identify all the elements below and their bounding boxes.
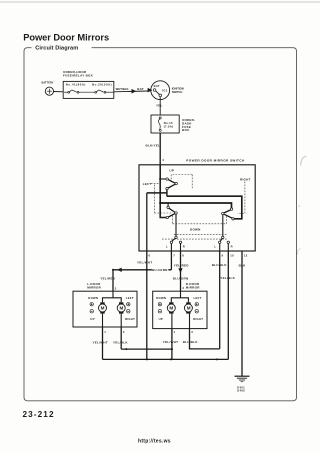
svg-text:G402: G402	[237, 389, 245, 393]
svg-text:LEFT: LEFT	[126, 296, 134, 300]
svg-text:12: 12	[244, 254, 248, 258]
svg-text:LEFT: LEFT	[194, 296, 202, 300]
DOWN position label	[190, 227, 201, 231]
left mirror label UP	[90, 317, 94, 321]
svg-text:IGNITION: IGNITION	[172, 86, 184, 90]
svg-text:UP: UP	[159, 317, 163, 321]
LEFT position label	[143, 182, 152, 186]
wire left mirror YEL/WHT to bus1	[102, 327, 104, 359]
left door mirror name label	[87, 282, 101, 289]
section title Circuit Diagram	[35, 46, 78, 52]
node junction H2 branch	[159, 202, 161, 204]
svg-text:BAT: BAT	[154, 84, 160, 88]
ignition switch name label	[172, 86, 184, 93]
right mirror polarity marks right column	[195, 303, 198, 313]
left mirror polarity marks left column	[90, 303, 93, 313]
right mirror label LEFT	[194, 296, 202, 300]
right mirror feed split	[171, 291, 188, 302]
bus2 YEL/BLK cross-connect	[121, 348, 172, 350]
wire right mirror YEL/WHT to bus1	[171, 329, 173, 360]
svg-text:Circuit Diagram: Circuit Diagram	[35, 46, 78, 52]
svg-text:No.20(50A): No.20(50A)	[92, 83, 112, 87]
fuse No.15 (7.5A) value label	[164, 121, 173, 128]
motor M left mirror left/right	[117, 302, 125, 313]
UP position label	[169, 168, 174, 172]
svg-text:RIGHT: RIGHT	[240, 178, 251, 182]
main feed wire inside switch	[160, 165, 166, 218]
svg-text:IG1: IG1	[162, 88, 167, 92]
svg-text:DOWN: DOWN	[88, 296, 98, 300]
wire under-dash fuse box to mirror switch, BLK/YEL	[146, 133, 161, 165]
left mirror label LEFT	[126, 296, 134, 300]
svg-text:http://tes.ws: http://tes.ws	[138, 439, 171, 445]
svg-text:DOWN: DOWN	[190, 227, 201, 231]
under-dash fuse box	[151, 115, 179, 133]
motor M right mirror left/right	[184, 302, 192, 313]
svg-text:3: 3	[123, 330, 125, 334]
wire labels YEL/WHT BLU/BLK below right mirror	[163, 340, 199, 344]
connector arrow on branch wire	[117, 268, 122, 272]
scan edge artifact top	[0, 2, 320, 3]
svg-text:UP: UP	[90, 317, 94, 321]
wire terminal 9 BLU/BLK down	[212, 251, 228, 349]
svg-text:L: L	[214, 245, 216, 249]
left selector output stem	[175, 214, 177, 236]
node junction on common wire at branch to left mirror	[146, 269, 148, 271]
terminal 2 of right mirror	[183, 286, 185, 290]
svg-text:(7.5A): (7.5A)	[164, 124, 173, 128]
node BAT label	[137, 87, 144, 91]
svg-text:WHT/BLK: WHT/BLK	[116, 87, 129, 91]
RIGHT position label	[240, 178, 251, 182]
svg-text:BLU/BLK: BLU/BLK	[183, 340, 199, 344]
right selector contacts and lever	[222, 208, 235, 220]
right pair pin labels L R	[214, 245, 232, 249]
right pair contacts L and R	[219, 241, 230, 243]
under-hood fuse/relay box	[63, 81, 114, 98]
DOWN gang dashed link	[173, 216, 227, 224]
connector arrow into ignition switch	[148, 88, 153, 93]
svg-text:YEL/WHT: YEL/WHT	[163, 340, 178, 344]
branch wire BLU/GRN to left mirror	[112, 268, 171, 291]
terminal 2 of left mirror	[115, 286, 117, 290]
svg-text:4: 4	[162, 158, 164, 162]
under-hood fuse/relay box label	[63, 70, 93, 77]
svg-text:BLU/BLK: BLU/BLK	[212, 263, 228, 267]
node junction on feed at UP branch	[159, 178, 166, 180]
left pair pin labels L R	[166, 245, 185, 249]
wire UP contact down to common H1	[166, 190, 168, 196]
svg-text:MIRROR: MIRROR	[87, 285, 101, 289]
svg-text:M: M	[169, 306, 173, 311]
svg-text:DOWN: DOWN	[156, 296, 166, 300]
right mirror polarity marks left column	[158, 303, 161, 313]
right door mirror name label	[186, 282, 200, 289]
svg-text:3: 3	[191, 330, 193, 334]
svg-text:YEL/RED: YEL/RED	[174, 263, 190, 267]
svg-text:UP: UP	[169, 168, 174, 172]
svg-text:BAT: BAT	[137, 87, 144, 91]
page title	[23, 33, 109, 43]
svg-text:No.41(80A): No.41(80A)	[66, 83, 86, 87]
scan edge artifact right	[297, 156, 306, 255]
wire battery to under-hood fuse box	[54, 91, 64, 93]
right door mirror box	[153, 291, 207, 328]
svg-text:2: 2	[183, 286, 185, 290]
wire ignition switch to under-dash fuse box, YEL	[156, 97, 163, 115]
power door mirror switch box	[139, 165, 255, 251]
ground G401 G402	[235, 376, 250, 382]
bus1 YEL/WHT common return	[103, 358, 229, 360]
svg-text:BLK/YEL: BLK/YEL	[146, 144, 161, 148]
ignition switch pin IG1	[162, 88, 167, 92]
svg-text:BLK: BLK	[239, 263, 247, 267]
motor M right mirror up/down	[167, 302, 175, 313]
svg-text:RIGHT: RIGHT	[125, 317, 135, 321]
ignition switch pin BAT	[154, 84, 160, 88]
wire branch to terminal 6 (YEL/WHT common)	[147, 192, 167, 194]
svg-text:7: 7	[173, 254, 175, 258]
wires pair contacts to box bottom	[171, 244, 228, 252]
ignition switch	[151, 81, 170, 100]
right mirror label RIGHT	[193, 317, 203, 321]
terminal 4 of mirror switch	[162, 158, 164, 162]
watermark	[138, 439, 171, 445]
svg-text:BOX: BOX	[182, 128, 189, 132]
svg-text:M: M	[101, 306, 105, 311]
ground name label G401 G402	[237, 385, 245, 392]
LEFT gang dashed link	[151, 183, 173, 213]
svg-text:YEL/WHT: YEL/WHT	[137, 261, 152, 265]
svg-text:R: R	[183, 245, 185, 249]
svg-text:1: 1	[174, 330, 176, 334]
wire terminal 10 YEL/BLK down	[220, 251, 235, 359]
UP switch contacts and lever	[166, 178, 178, 190]
svg-text:YEL/WHT: YEL/WHT	[93, 340, 108, 344]
frame border of diagram	[24, 48, 297, 401]
svg-text:YEL: YEL	[156, 103, 163, 107]
terminal numbers below right mirror	[174, 330, 194, 334]
svg-text:1: 1	[104, 330, 106, 334]
fuse No.41(80A)	[64, 90, 95, 93]
bus H2 to right assembly upper contact	[160, 203, 231, 208]
right output pivot and lever to L contact	[220, 236, 224, 241]
terminal numbers below switch box	[149, 254, 248, 258]
wire YEL/RED label into left mirror	[100, 277, 116, 281]
motor M left mirror up/down	[99, 302, 107, 313]
right selector output stem	[222, 215, 224, 237]
wire fuse box to ignition switch, WHT/BLK	[114, 87, 148, 92]
connector arrow on WHT/BLK wire	[132, 89, 137, 94]
svg-text:RIGHT: RIGHT	[193, 317, 203, 321]
terminal numbers below left mirror	[104, 330, 125, 334]
left mirror label RIGHT	[125, 317, 135, 321]
battery	[42, 81, 54, 96]
common bus H1 to right assembly	[167, 196, 242, 219]
right mirror label DOWN	[156, 296, 166, 300]
RIGHT gang dashed link	[238, 182, 245, 214]
wire terminal 7 down to branch	[170, 251, 172, 270]
wire BLU/GRN label into right mirror	[173, 276, 189, 280]
wire right mirror BLU/BLK cross-connect to terminal 9 wire	[190, 329, 220, 349]
wires left mirror motors to box bottom	[103, 314, 122, 327]
svg-text:FUSE/RELAY BOX: FUSE/RELAY BOX	[63, 74, 93, 78]
fuse No.20(50A)	[95, 90, 114, 93]
wire terminal 6 YEL/WHT common down to ground bus	[137, 193, 152, 360]
wires right mirror motors to box bottom	[172, 314, 190, 329]
wire left mirror YEL/BLK to bus2	[120, 327, 122, 349]
left mirror feed split	[103, 291, 122, 302]
right mirror label UP	[159, 317, 163, 321]
svg-text:23-212: 23-212	[23, 410, 55, 419]
fuse No.41(80A) value label	[66, 83, 86, 87]
svg-text:YEL/RED: YEL/RED	[100, 277, 116, 281]
svg-text:Power Door Mirrors: Power Door Mirrors	[23, 33, 109, 43]
svg-text:9: 9	[222, 254, 224, 258]
svg-text:10: 10	[230, 254, 234, 258]
svg-text:BLU/GRN: BLU/GRN	[152, 268, 168, 272]
under-dash fuse box name label	[182, 118, 195, 132]
wire terminal 12 BLK down to ground	[239, 251, 247, 376]
svg-text:LEFT: LEFT	[143, 182, 152, 186]
svg-text:M: M	[187, 306, 191, 311]
svg-text:BLU/GRN: BLU/GRN	[173, 276, 189, 280]
svg-text:L: L	[166, 245, 168, 249]
wire labels YEL/WHT YEL/BLK below left mirror	[93, 340, 129, 344]
left output pivot and lever to L contact	[172, 236, 177, 241]
lower gang dashed link	[162, 235, 227, 240]
page number 23-212	[23, 410, 55, 419]
left mirror polarity marks right column	[127, 303, 130, 313]
power door mirror switch name label	[186, 159, 245, 163]
svg-text:SWITCH: SWITCH	[172, 90, 183, 94]
svg-text:6: 6	[149, 254, 151, 258]
fuse No.15 (7.5A)	[158, 117, 161, 131]
svg-text:8: 8	[182, 254, 184, 258]
svg-text:R: R	[231, 245, 233, 249]
left mirror label DOWN	[88, 296, 98, 300]
svg-text:YEL/BLK: YEL/BLK	[220, 276, 235, 280]
left pair contacts L and R	[170, 241, 182, 243]
svg-text:POWER DOOR MIRROR SWITCH: POWER DOOR MIRROR SWITCH	[186, 159, 245, 163]
stub H2 to left lower contact	[167, 203, 169, 206]
svg-text:BATTERY: BATTERY	[42, 81, 54, 85]
connector arrow on YEL/RED wire	[178, 268, 182, 273]
UP gang dashed link	[171, 175, 192, 189]
left door mirror box	[73, 291, 137, 327]
svg-text:2: 2	[115, 286, 117, 290]
left selector contacts and lever	[166, 206, 177, 219]
wire terminal 8 YEL/RED down to right mirror	[174, 251, 190, 291]
svg-text:MIRROR: MIRROR	[186, 285, 200, 289]
fuse No.20(50A) value label	[92, 83, 112, 87]
svg-text:M: M	[120, 306, 124, 311]
